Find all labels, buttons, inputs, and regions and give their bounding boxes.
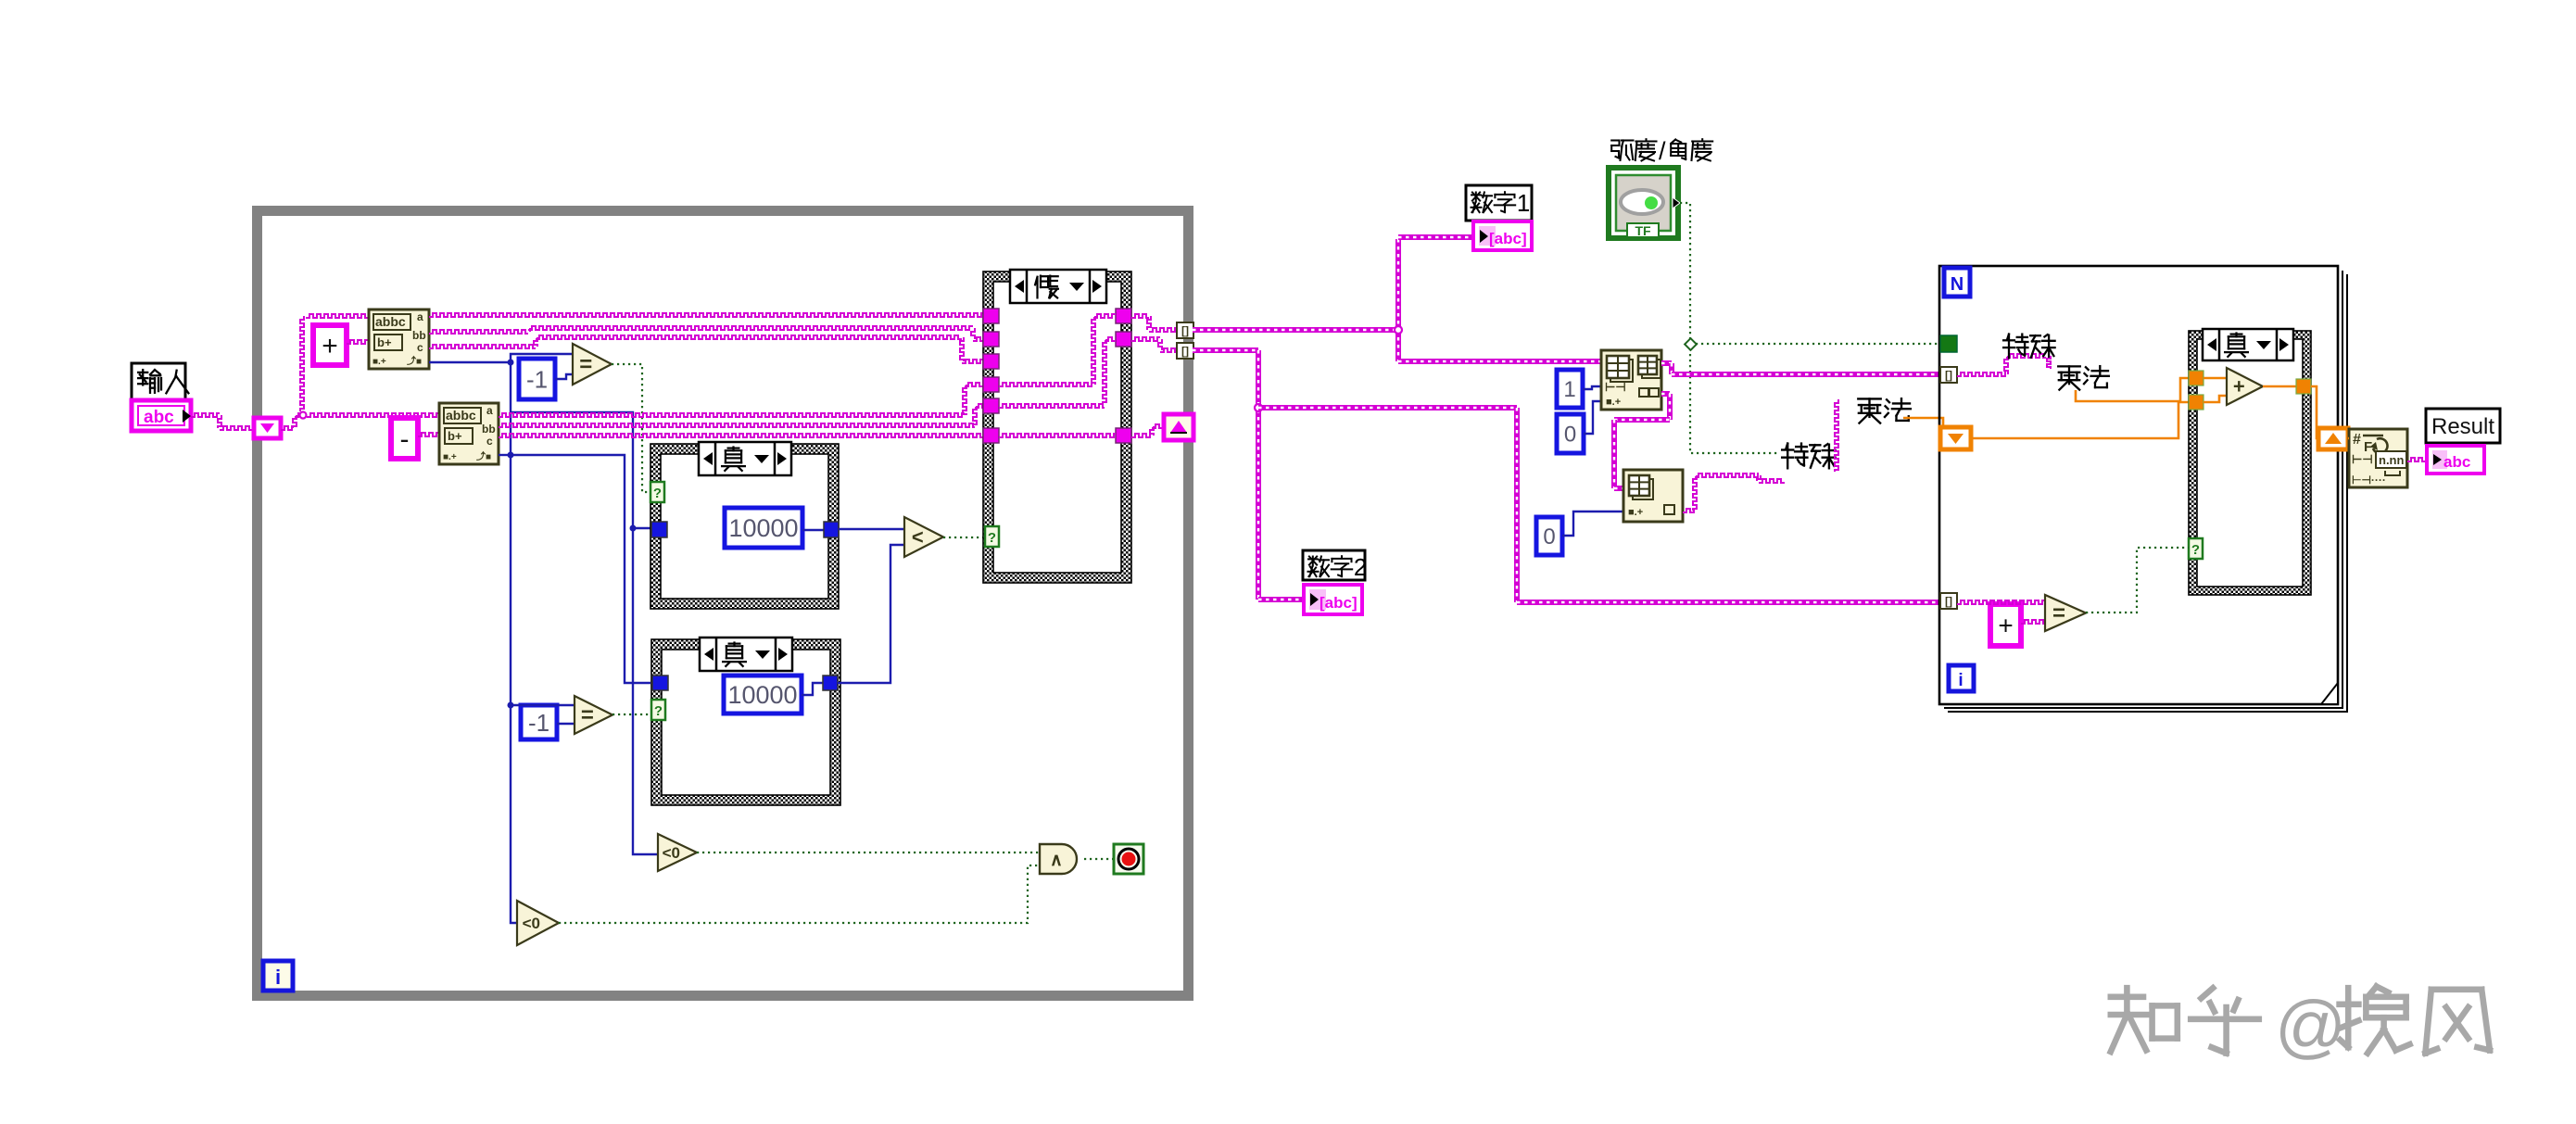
false case left tunnels T1-T6 [983, 309, 999, 323]
wire: case1 out to less-than [839, 528, 904, 530]
wire: case2 out up to less-than [838, 545, 904, 683]
svg-text:[]: [] [1945, 595, 1952, 608]
equals node =2 [575, 696, 612, 734]
svg-text:c: c [486, 435, 493, 448]
wire + to equals3 [2021, 620, 2045, 624]
svg-text:<: < [912, 525, 924, 549]
wire label 特殊 (in loop) [2003, 335, 2027, 359]
svg-text:b+: b+ [377, 335, 392, 349]
svg-text:+: + [1998, 611, 2013, 639]
array wire scan1 to scan2 [1661, 391, 1670, 397]
blue branch to case2 tunnel [511, 455, 650, 683]
svg-text:[abc]: [abc] [1489, 230, 1527, 247]
string constant - [391, 418, 418, 459]
numeric constant 1 [1557, 370, 1583, 408]
spreadsheet string to array node 2 [1623, 470, 1683, 522]
wire node to Result indicator [2407, 458, 2427, 461]
wire: -1 to equals1 [555, 374, 573, 379]
numeric constant 0 (second) [1536, 517, 1562, 555]
svg-text:+: + [322, 331, 338, 361]
wire: match1 out bb [429, 330, 528, 334]
array wire up to indicator 数字1 [1395, 239, 1401, 330]
svg-text:@: @ [2275, 987, 2346, 1066]
svg-text:a: a [486, 404, 493, 417]
svg-text:-1: -1 [526, 365, 548, 393]
svg-text:<0: <0 [523, 915, 540, 932]
svg-text:[]: [] [1181, 324, 1189, 337]
boolean input tunnel (green) [1940, 335, 1957, 352]
svg-text:bb: bb [412, 329, 426, 342]
while loop iteration terminal i [263, 961, 293, 991]
svg-text:?: ? [2191, 542, 2200, 558]
wire orange tunnel to number-to-string [2348, 437, 2349, 440]
label 弧度/角度 [1611, 141, 1633, 161]
wire: false case T1r to array tunnel 1 [1131, 314, 1149, 318]
svg-text:?: ? [988, 530, 996, 546]
wire label 乘法 (middle) [1858, 398, 1880, 423]
array wire right to for loop bottom tunnel [1258, 405, 1517, 410]
svg-text:=: = [581, 703, 594, 728]
less-than node < [904, 517, 943, 557]
watermark 知乎 @挽风 [2111, 988, 2178, 1052]
svg-text:⤴■: ⤴■ [476, 450, 491, 462]
svg-text:1: 1 [1563, 377, 1575, 402]
orange wire add to case output tunnel [2263, 385, 2296, 388]
loop auto-index tunnel 2 [] [1177, 343, 1193, 359]
svg-text:[abc]: [abc] [1320, 594, 1357, 612]
svg-text:bb: bb [482, 423, 496, 436]
number to fractional string node [2349, 429, 2407, 487]
wire: match1 out c [429, 345, 536, 348]
numeric constant 0 (first) [1557, 414, 1584, 453]
string array indicator 数字1 [1473, 221, 1532, 250]
wire: junction to equals1 top input [511, 354, 573, 362]
wire: match1 out a to case tunnel T1 [429, 313, 983, 317]
less-than-zero node 2 [517, 901, 559, 945]
wire: match2 out bb to T5 [499, 423, 975, 427]
svg-text:10000: 10000 [728, 514, 798, 542]
case structure 2 border [651, 639, 840, 805]
svg-text:abbc: abbc [446, 408, 476, 423]
svg-text:0: 0 [1543, 524, 1555, 549]
svg-text:⊢⊣: ⊢⊣ [2352, 452, 2373, 466]
svg-text:n.nn: n.nn [2379, 453, 2404, 467]
string array indicator 数字2 [1304, 585, 1362, 614]
for loop orange output tunnel (up arrow) [2318, 428, 2348, 449]
wire: bus to equals2 top input [511, 704, 575, 706]
label 数字2 [1303, 550, 1365, 580]
orange wire from 乘法 to inner case tunnel 1 [2076, 378, 2189, 401]
wire [] bottom tunnel to equals3 [1957, 600, 2045, 604]
while loop frame [258, 211, 1189, 996]
inner case orange tunnel 2 [2189, 395, 2203, 410]
wire 0 to scan node 2 [1562, 511, 1623, 536]
less-than-zero node 1 [658, 834, 697, 871]
svg-text:10000: 10000 [727, 681, 797, 709]
svg-text:■.+: ■.+ [443, 452, 457, 462]
wire: - const to b+ of match node 2 [418, 433, 439, 436]
orange wire to for loop out tunnel [2311, 386, 2318, 438]
svg-text:i: i [275, 966, 281, 989]
numeric constant -1 (second) [521, 705, 557, 739]
inner wires of false case [999, 383, 1093, 386]
while loop input tunnel (down arrow) [254, 418, 281, 438]
boolean junction diamond [1685, 338, 1697, 350]
array wire down to scan node 1 [1395, 330, 1401, 361]
false case ? terminal [985, 526, 999, 547]
svg-text:■.+: ■.+ [1606, 397, 1621, 408]
numeric constant -1 (first) [519, 359, 555, 399]
svg-text:-1: -1 [528, 709, 549, 737]
svg-text:/: / [1659, 137, 1666, 165]
wire up to 乘法 [1835, 399, 1838, 472]
label 数字1 [1466, 185, 1532, 221]
wire 10000#2 to output tunnel [802, 683, 823, 695]
for loop iteration terminal i [1949, 665, 1974, 691]
svg-text:⊢⊣: ⊢⊣ [1605, 380, 1626, 394]
wire label 乘法 (in loop) [2058, 366, 2080, 389]
svg-text:0: 0 [1564, 423, 1576, 448]
svg-text:=: = [2052, 601, 2065, 626]
boolean wire TF to for loop [1680, 203, 1779, 453]
boolean control TF (弧度/角度) [1609, 168, 1678, 238]
wire scan2 out toward 特殊 [1683, 509, 1695, 512]
blue vertical bus from match1 [511, 362, 517, 923]
wire: junction right to match node 2 input [307, 413, 439, 417]
wire: false case T3r to loop out tunnel [1131, 434, 1152, 437]
string constant + (bottom) [1990, 604, 2021, 646]
wire: + const to b+ input of match node 1 [347, 340, 369, 344]
svg-text:?: ? [653, 486, 662, 501]
boolean wire AND to stop terminal [1084, 858, 1114, 860]
svg-text:abbc: abbc [375, 314, 406, 329]
equals node =1 [573, 344, 612, 385]
loop output tunnel (up arrow) [1164, 414, 1193, 440]
false case right tunnels [1116, 309, 1131, 323]
array wire from tunnel2 down [1193, 347, 1258, 353]
case 2 output tunnel [823, 676, 838, 690]
label 输入 [132, 363, 185, 400]
for loop frame (stacked) [1948, 274, 2347, 712]
blue branch to case1 tunnel and <0 #1 [511, 412, 658, 854]
case 2 selector label 真 [700, 638, 792, 671]
case 2 input tunnel (blue) [652, 676, 668, 690]
boolean wire =3 to inner case selector [2086, 548, 2189, 613]
inner case ? terminal [2189, 538, 2203, 559]
svg-text:1: 1 [1517, 191, 1530, 217]
inner case output tunnel (orange) [2296, 379, 2311, 394]
add node + [2227, 368, 2263, 405]
match pattern node 1 [369, 309, 429, 369]
wire: tunnel to junction [281, 426, 295, 430]
wire: match1 numeric out (blue) [429, 361, 511, 363]
svg-text:<0: <0 [663, 844, 680, 862]
svg-text:⤴■: ⤴■ [407, 355, 422, 367]
junction ring [300, 412, 307, 419]
svg-text:-: - [400, 424, 410, 455]
equals node =3 [2045, 595, 2086, 631]
orange wire from shift tunnel to inner case tunnel 2 [1971, 402, 2189, 438]
orange wires to add node [2203, 377, 2227, 380]
for loop auto-index input tunnel [] [1940, 367, 1957, 383]
inner case orange tunnel 1 [2189, 371, 2203, 385]
case 2 ? terminal [651, 700, 665, 720]
wire label 特殊 (middle) [1782, 444, 1807, 469]
svg-text:?: ? [654, 703, 663, 719]
case 1 input tunnel (blue) [651, 522, 667, 537]
svg-text:■.+: ■.+ [373, 357, 386, 367]
orange wire to for loop tunnel [1903, 418, 1943, 428]
svg-text:[]: [] [1945, 369, 1952, 382]
case structure 1 border [650, 444, 839, 609]
svg-text:#: # [2353, 432, 2361, 448]
for loop bottom auto-index tunnel [] [1940, 593, 1957, 609]
svg-text:∧: ∧ [1050, 851, 1063, 870]
boolean wire <0#1 to AND [697, 852, 1040, 853]
array wire from tunnel1 to junction [1193, 327, 1398, 333]
boolean wire =1 to case1 selector [612, 364, 650, 492]
svg-text:[]: [] [1181, 345, 1189, 358]
match pattern node 2 [439, 403, 499, 464]
wire: junction up to match node 1 input [300, 316, 304, 411]
false case selector label 假 [1010, 270, 1106, 303]
svg-text:i: i [1958, 671, 1963, 690]
svg-text:⊢⊣····: ⊢⊣···· [2352, 474, 2386, 486]
string constant + [313, 325, 347, 365]
case 1 output tunnel [824, 522, 839, 537]
array wire scan1 out to for loop tunnel [1661, 360, 1672, 366]
svg-text:+: + [2233, 374, 2245, 398]
for loop folded corner [2321, 683, 2338, 704]
boolean wire < to false-case selector [943, 537, 985, 538]
inner case structure border (真) [2189, 331, 2311, 595]
for loop count terminal N [1944, 268, 1970, 297]
svg-text:a: a [417, 310, 423, 323]
wire 10000 to output tunnel [802, 529, 824, 531]
wires 1/0 to scan node 1 [1583, 386, 1601, 389]
wire: match2 numeric out [499, 454, 511, 456]
svg-text:b+: b+ [448, 429, 462, 443]
case 1 ? terminal [650, 482, 664, 502]
AND gate [1040, 844, 1077, 874]
numeric constant 10000 (case1) [725, 508, 802, 548]
orange shift/input tunnel (down arrow) [1940, 427, 1971, 449]
svg-text:2: 2 [1354, 555, 1367, 581]
svg-text:abc: abc [144, 408, 174, 427]
label Result [2426, 409, 2500, 443]
wire: -1 to equals2 [557, 723, 575, 725]
svg-text:c: c [417, 341, 423, 354]
spreadsheet string to array node 1 [1601, 350, 1661, 410]
string control abc (输入) [132, 400, 191, 431]
wire: abc control to loop tunnel [191, 413, 220, 417]
string indicator Result [2427, 446, 2484, 474]
case structure false border [983, 272, 1131, 583]
boolean wire <0#2 to AND [559, 865, 1040, 923]
case 1 selector label 真 [699, 442, 791, 475]
loop auto-index tunnel 1 [] [1177, 322, 1193, 338]
boolean wire =2 to case2 selector [612, 714, 651, 715]
svg-text:N: N [1951, 274, 1964, 295]
svg-text:Result: Result [2431, 414, 2494, 439]
svg-text:=: = [579, 352, 592, 377]
wire: match2 out a to case tunnel T4 [499, 413, 965, 417]
wire: false case T2r to array tunnel 2 [1131, 337, 1160, 341]
svg-text:■.+: ■.+ [1628, 507, 1643, 518]
loop condition (stop) terminal [1114, 844, 1143, 874]
inner case selector label 真 [2203, 329, 2293, 360]
svg-text:TF: TF [1635, 223, 1651, 238]
svg-text:abc: abc [2443, 453, 2470, 471]
wire: match2 out c to T6 [499, 434, 983, 437]
wire: string to match node 1 (row a) [306, 314, 369, 318]
wire from [] top into loop [1957, 373, 2006, 376]
numeric constant 10000 (case2) [724, 676, 802, 714]
